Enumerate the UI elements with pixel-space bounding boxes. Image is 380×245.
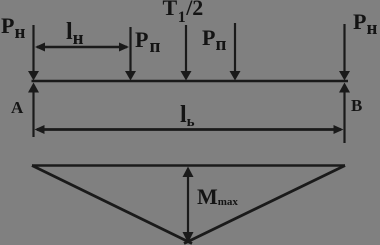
force P_p right arrow: [230, 23, 241, 81]
M_max dimension arrow: [183, 167, 194, 244]
dimension l_b: [35, 125, 344, 134]
svg-text:В: В: [351, 96, 362, 115]
force P_n right arrow: [339, 24, 350, 81]
beam AB: [32, 80, 349, 82]
support reaction B (up arrow below beam): [339, 83, 350, 144]
force P_n left arrow: [28, 25, 39, 81]
force P_p left arrow: [125, 27, 136, 81]
svg-text:А: А: [11, 98, 24, 117]
moment diagram top line: [32, 164, 345, 167]
support reaction A (up arrow below beam): [28, 83, 39, 138]
moment diagram left slant: [32, 166, 192, 244]
force T1/2 center arrow: [181, 25, 192, 81]
dimension l_n: [35, 43, 129, 52]
moment diagram right slant: [184, 166, 345, 244]
